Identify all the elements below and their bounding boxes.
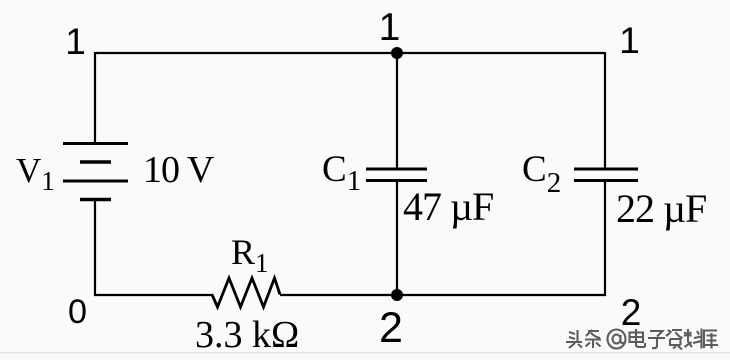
wire top rail node 1 [95,52,605,54]
svg-text:2: 2 [379,304,403,352]
svg-text:0: 0 [68,293,87,331]
watermark char 资 [666,330,683,350]
wire right vertical lower (C2 bottom lead) [604,181,606,296]
svg-text:47 µF: 47 µF [403,184,493,229]
wire middle vertical lower (C1 bottom lead) [396,181,398,296]
capacitor C1 plates [366,169,427,181]
junction dot top node 1 [391,47,403,59]
watermark char 库 [703,331,718,349]
svg-text:10 V: 10 V [143,149,215,191]
svg-text:1: 1 [619,20,640,61]
wire middle vertical upper (C1 top lead) [396,53,398,169]
watermark char @ [608,330,626,349]
capacitor C2 plates [574,169,638,181]
watermark char 电 [630,329,646,347]
svg-text:1: 1 [65,21,86,62]
watermark char 子 [648,331,665,348]
wire left vertical upper [94,52,96,143]
watermark char 条 [585,330,601,348]
svg-text:3.3 kΩ: 3.3 kΩ [195,314,299,356]
faint bottom edge line [0,352,730,353]
svg-text:1: 1 [379,6,401,49]
wire left vertical lower [94,201,96,296]
watermark char 头 [566,330,582,348]
wire bottom rail right of R1 [280,294,606,296]
battery V1 symbol plates [63,144,128,200]
watermark char 料 [684,329,702,349]
watermark: gray CJK strokes for 头条 @电子资料库 [566,329,718,350]
wire right vertical upper (C2 top lead) [604,52,606,169]
svg-text:22 µF: 22 µF [616,186,706,231]
resistor R1 zigzag [212,278,280,307]
wire bottom rail left of R1 [94,294,213,296]
svg-text:2: 2 [621,292,642,333]
junction dot bottom node 2 [391,289,403,301]
